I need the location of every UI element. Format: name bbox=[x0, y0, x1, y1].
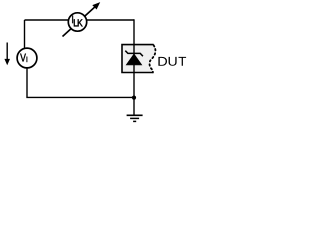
voltage source VI circle bbox=[17, 48, 37, 68]
arrow down (VI polarity) bbox=[6, 43, 8, 60]
label D of DUT bbox=[158, 57, 167, 66]
DUT torn right edge (dashed squiggle) bbox=[149, 45, 155, 72]
wire DUT branch: top right corner down through DUT box bbox=[133, 19, 135, 97]
diode D (zener) cathode bar bbox=[125, 51, 143, 57]
label V of VI bbox=[20, 54, 26, 62]
junction node dot bbox=[132, 96, 136, 100]
diode D anode triangle bbox=[126, 54, 142, 65]
current source ILK circle bbox=[68, 13, 86, 31]
wire top: left corner to DUT corner bbox=[25, 19, 135, 21]
label T of DUT bbox=[178, 57, 186, 66]
arrow through ILK (variable source, behind circle) bbox=[63, 7, 95, 37]
ground symbol bbox=[127, 114, 143, 116]
DUT box bbox=[122, 45, 155, 73]
label I of ILK bbox=[52, 15, 93, 23]
label K of ILK subscript bbox=[78, 19, 83, 26]
label L of ILK subscript bbox=[74, 19, 78, 26]
label I of VI subscript bbox=[26, 57, 27, 63]
label U of DUT bbox=[169, 57, 177, 66]
wire ground stub bbox=[133, 97, 135, 115]
wire inside DUT redrawn over fill bbox=[133, 44, 135, 73]
wire left branch: top corner down through VI to bottom corner bbox=[25, 20, 135, 97]
